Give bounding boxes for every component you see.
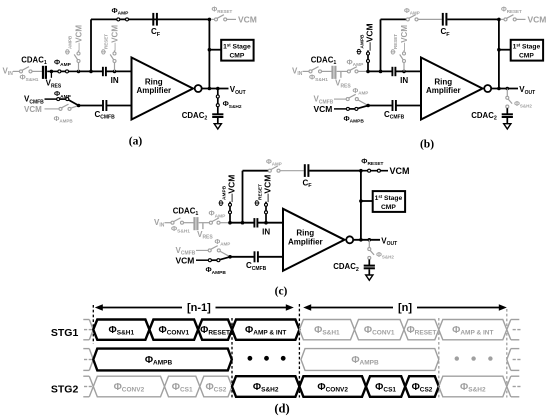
switch phi_AMP top open (b): [406, 15, 418, 21]
wire CMFB node to CCMFB (b): [368, 105, 392, 107]
signal row3 leading partial: [83, 376, 93, 397]
label phi_AMP main (a): [54, 57, 72, 68]
label IN (a): [111, 76, 119, 85]
node IN (a): [113, 70, 117, 74]
capacitor CDAC1 (a): [43, 66, 46, 79]
wire CDAC1 to phi_AMP switch (b): [337, 70, 348, 72]
capacitor CDAC2 (a): [212, 114, 223, 117]
net VIN label (b): [292, 67, 303, 78]
wire output (c): [353, 239, 380, 241]
wire phi_AMP switch to node A (b): [358, 70, 368, 72]
dots gray: [455, 356, 493, 360]
boundary dashed line n mid: [438, 318, 440, 398]
signal row2 leading partial: [83, 349, 93, 371]
label phi_RESET rotated (c): [253, 184, 264, 206]
wire output vertical (c): [360, 171, 362, 240]
svg-text:Ring: Ring: [296, 229, 314, 238]
label phi_AMP VCMFB (b): [353, 88, 369, 96]
caption (b): [420, 139, 434, 151]
wire IN cap to amplifier (a): [106, 70, 131, 72]
node VOUT junction 2 (c): [368, 238, 372, 242]
label VCM rotated 2 (b): [400, 25, 409, 51]
signal row3 trailing partial: [507, 376, 521, 397]
signal STG1 phi_AMP &a n-1: [232, 320, 299, 340]
net VIN label (c): [154, 218, 165, 229]
wire switch to CDAC1 (a): [32, 70, 42, 72]
label VCMFB (a): [24, 95, 44, 106]
label phi_S&H1 (a): [20, 73, 39, 84]
label VCMFB (c): [176, 246, 196, 257]
signal STG2 phi_CS2 n-1: [200, 376, 232, 397]
label phi_AMPB bottom (c): [206, 265, 227, 276]
signal row2 trailing partial: [507, 349, 521, 371]
svg-text:IN: IN: [262, 227, 270, 236]
label phi_S&H1 (c): [171, 224, 190, 235]
label phi_RESET top-right (c): [361, 157, 383, 168]
label phi_AMPB rotated (b): [355, 34, 366, 55]
label [n-1]: [187, 302, 211, 314]
caption (c): [275, 286, 288, 298]
inverter output bubble (a): [195, 85, 202, 92]
label CCMFB (b): [384, 110, 405, 121]
wire node A to IN cap (c): [230, 222, 254, 224]
label VCM bottom (b): [314, 104, 333, 114]
label phi_RESET top-right (a): [212, 7, 233, 15]
label CCMFB (c): [246, 261, 267, 272]
wire VCM to switch (b): [334, 108, 349, 110]
label STG2: [51, 384, 79, 396]
wire feedback vertical (a): [89, 19, 93, 73]
node CMFB junction (b): [366, 104, 370, 108]
signal STG1 phi_RESET n: [404, 320, 439, 340]
switch phi_RESET to VCM vertical (a): [110, 50, 116, 71]
label VOUT (c): [381, 237, 397, 248]
switch S&H1 open (b): [309, 67, 322, 73]
label phi_AMP VCMFB (c): [215, 239, 231, 247]
label IN (b): [400, 76, 408, 85]
node CMP branch (b): [497, 48, 501, 52]
wire CCMFB to amplifier (a): [107, 105, 132, 107]
wire node A to IN cap (a): [79, 70, 103, 72]
switch phi_RESET to VCM vertical (b): [400, 50, 406, 71]
label CF (a): [151, 27, 161, 38]
node CMP branch (a): [208, 48, 212, 52]
svg-text:CDAC1: CDAC1: [311, 55, 337, 66]
svg-text:VCM: VCM: [176, 255, 195, 265]
ground (a): [214, 118, 221, 129]
signal STG1 phi_RESET n-1: [198, 320, 232, 340]
label phi_AMP VCMFB (a): [54, 89, 72, 100]
arrow span n: [303, 304, 507, 310]
caption (a): [129, 136, 143, 148]
capacitor CCMFB (c): [255, 251, 258, 262]
signal STG2 phi_CS2 n: [405, 376, 439, 397]
capacitor CDAC1 (c): [195, 217, 198, 230]
node VRES (a): [50, 70, 54, 78]
signal phi_AMPB n: [301, 349, 439, 371]
svg-text:(a): (a): [129, 136, 143, 148]
svg-text:CMP: CMP: [519, 53, 534, 60]
label phi_AMPB bottom (a): [54, 116, 74, 124]
label phi_RESET rotated (b): [391, 34, 399, 55]
comparator 1st Stage CMP box (a): [221, 40, 253, 61]
node CMFB junction (a): [77, 104, 81, 108]
switch phi_AMPB to VCM vertical (c): [229, 202, 232, 223]
signal STG1 phi_AMP &a n: [439, 320, 507, 340]
switch phi_RESET top-right (a): [211, 15, 236, 21]
svg-text:(b): (b): [420, 139, 434, 151]
label phi_AMP top (b): [404, 8, 420, 16]
label VCM bottom (a): [24, 105, 42, 114]
svg-text:(d): (d): [274, 402, 289, 416]
switch phi_AMPB VCM bottom (c): [208, 257, 230, 262]
label VCM rotated 1 (b): [365, 23, 375, 50]
label CDAC2 (a): [182, 111, 208, 122]
svg-text:Amplifier: Amplifier: [426, 86, 461, 95]
op-amp Ring Amplifier (c): [283, 209, 345, 271]
label VCM rotated 1 (a): [74, 25, 83, 51]
label phi_S&H2 (b): [514, 101, 532, 109]
boundary dashed line phi_AMPINT start: [231, 318, 233, 398]
svg-text:CMP: CMP: [381, 204, 396, 211]
svg-text:STG1: STG1: [51, 327, 79, 339]
label CDAC2 (b): [471, 111, 497, 122]
wire top feedback mid gray (c): [280, 170, 304, 172]
label phi_AMP main (c): [209, 209, 227, 220]
label STG1: [51, 327, 79, 339]
wire VCM to switch (c): [196, 259, 211, 261]
signal STG2 phi_S&amp n: [439, 376, 507, 397]
capacitor CCMFB (b): [393, 100, 396, 111]
signal STG2 phi_CONV2 n-1: [93, 376, 164, 397]
switch phi_S&H2 (c): [368, 240, 374, 265]
wire phi_AMP switch to node A (c): [220, 222, 230, 224]
boundary dashed line n-1/n: [298, 304, 300, 398]
switch phi_AMP VCMFB (b): [346, 94, 368, 105]
switch phi_RESET top-right (b): [501, 15, 526, 21]
label phi_S&H1 (b): [309, 73, 328, 84]
label VCM top-right (b): [528, 15, 547, 25]
wire feedback vertical (c): [241, 171, 245, 225]
label [n]: [398, 302, 412, 314]
signal STG2 phi_CONV2 n: [299, 376, 366, 397]
capacitor CDAC2 (c): [364, 266, 375, 269]
svg-text:—VCM: —VCM: [110, 25, 119, 51]
wire output (b): [491, 88, 518, 90]
label VCM top-right (c): [390, 166, 410, 176]
label phi_RESET rotated (a): [101, 34, 109, 55]
inverter output bubble (b): [484, 85, 491, 92]
label CF (c): [303, 179, 313, 190]
wire top feedback mid gray (b): [418, 18, 442, 20]
dots black: [248, 356, 286, 361]
svg-text:Ring: Ring: [434, 77, 452, 86]
node top-right junction (c): [359, 169, 363, 173]
svg-text:(c): (c): [275, 286, 288, 298]
svg-text:CMP: CMP: [229, 53, 244, 60]
svg-text:VCM: VCM: [390, 166, 410, 176]
svg-text:CDAC1: CDAC1: [21, 55, 47, 66]
wire to CMP box (c): [361, 200, 373, 202]
wire CDAC1 to phi_AMP switch (c): [199, 222, 210, 224]
switch phi_AMP top closed (a): [117, 18, 129, 21]
switch phi_AMPB VCM bottom (a): [59, 104, 79, 110]
label CF (b): [441, 27, 451, 38]
switch phi_AMP main (b): [347, 67, 358, 73]
wire VCM to switch (a): [45, 108, 60, 110]
label phi_S&H2 (c): [376, 252, 394, 260]
wire switch to CDAC1 (b): [322, 70, 332, 72]
switch phi_AMPB to VCM vertical (b): [367, 50, 370, 71]
wire output vertical (b): [498, 19, 500, 88]
label VRES (b): [335, 79, 351, 90]
capacitor CF (a): [153, 13, 157, 26]
label phi_AMP top (c): [266, 159, 282, 167]
node VOUT junction 2 (a): [216, 87, 220, 91]
boundary dashed line left: [92, 305, 94, 344]
label VCM top-right (a): [238, 15, 257, 25]
wire switch to CDAC1 (c): [184, 222, 194, 224]
capacitor CDAC2 (b): [502, 114, 513, 117]
switch phi_AMP main (c): [209, 218, 220, 224]
switch phi_S&H2 (b): [506, 89, 512, 114]
svg-text:—VCM: —VCM: [365, 23, 375, 50]
wire top feedback (a): [91, 18, 209, 20]
boundary dashed line right: [506, 309, 508, 398]
label phi_RESET top-right (b): [501, 7, 522, 15]
svg-text:VCM: VCM: [238, 15, 257, 25]
node IN (c): [264, 221, 268, 225]
switch phi_AMP VCMFB (c): [208, 246, 230, 257]
signal STG1 phi_S&amp; n-1: [93, 320, 149, 340]
switch phi_S&H2 (a): [216, 89, 219, 114]
label IN (c): [262, 227, 270, 236]
signal row1 trailing partial: [507, 320, 521, 340]
switch phi_AMPB VCM bottom (b): [346, 106, 368, 111]
label CCMFB (a): [95, 110, 116, 121]
wire phi_AMP switch to node A (a): [69, 70, 79, 72]
wire top feedback left (c): [243, 170, 269, 172]
node A junction (c): [228, 221, 232, 225]
capacitor C_IN (a): [103, 67, 106, 76]
switch phi_AMP main (a): [58, 70, 69, 73]
comparator 1st Stage CMP box (b): [511, 40, 543, 61]
arrow span n-1: [95, 304, 294, 310]
node CMP branch (c): [359, 199, 363, 203]
wire feedback vertical (b): [379, 19, 383, 73]
ground (c): [366, 269, 373, 280]
label VRES (a): [46, 79, 62, 90]
label CDAC1 (a): [21, 55, 47, 66]
node VOUT junction 2 (b): [506, 87, 510, 91]
node VRES (b): [340, 71, 342, 77]
label VOUT (a): [230, 85, 246, 96]
svg-text:[n-1]: [n-1]: [187, 302, 211, 314]
wire VCMFB to switch (c): [196, 249, 208, 251]
ground (b): [504, 118, 511, 129]
signal STG2 phi_CS1 n: [366, 376, 405, 397]
signal row1 leading partial: [83, 320, 93, 340]
svg-text:VCM: VCM: [24, 105, 42, 114]
switch phi_AMPB to VCM vertical (a): [74, 50, 80, 71]
wire CMFB node to CCMFB (c): [230, 256, 254, 258]
wire VCMFB to switch (b): [334, 98, 346, 100]
label VCM rotated 2 (c): [263, 175, 273, 202]
wire top feedback right (b): [447, 18, 499, 20]
capacitor CF (b): [443, 13, 447, 26]
svg-text:—VCM: —VCM: [74, 25, 83, 51]
switch S&H1 open (a): [20, 67, 33, 73]
node VOUT junction 1 (c): [359, 238, 363, 242]
label phi_S&H2 (a): [223, 99, 242, 110]
node VOUT junction 1 (a): [208, 87, 212, 91]
label VOUT (b): [519, 85, 535, 96]
wire VIN to switch (a): [13, 70, 19, 72]
label VCM bottom (c): [176, 255, 195, 265]
caption (d): [274, 402, 289, 416]
wire IN cap to amplifier (b): [396, 70, 421, 72]
wire top feedback right (c): [309, 170, 361, 172]
wire output (a): [202, 88, 229, 90]
svg-text:—VCM: —VCM: [263, 175, 273, 202]
svg-text:Ring: Ring: [145, 77, 163, 86]
switch phi_RESET to VCM vertical (c): [265, 202, 268, 223]
wire to CMP box (b): [499, 49, 511, 51]
capacitor C_IN (c): [254, 218, 257, 227]
svg-text:IN: IN: [111, 76, 119, 85]
node top-right junction (b): [497, 18, 501, 22]
label phi_AMPB rotated (a): [65, 35, 73, 55]
label CDAC1 (c): [173, 207, 199, 218]
wire CDAC1 to phi_AMP switch (a): [47, 70, 58, 72]
label VCMFB (b): [314, 95, 334, 106]
node VOUT junction 1 (b): [497, 87, 501, 91]
svg-text:VCM: VCM: [314, 104, 333, 114]
wire VIN to switch (b): [303, 70, 309, 72]
inverter output bubble (c): [346, 236, 353, 243]
wire node A to IN cap (b): [368, 70, 392, 72]
node IN (b): [402, 70, 406, 74]
wire to CMP box (a): [209, 49, 221, 51]
switch phi_AMP VCMFB (a): [57, 98, 79, 106]
label CDAC1 (b): [311, 55, 337, 66]
label VCM rotated 2 (a): [110, 25, 119, 51]
signal STG1 phi_S&amp; n: [299, 320, 354, 340]
switch phi_AMP top open (c): [268, 166, 280, 172]
label VCM rotated 1 (c): [227, 175, 237, 202]
wire IN cap to amplifier (c): [258, 222, 283, 224]
svg-text:IN: IN: [400, 76, 408, 85]
node A junction (a): [77, 70, 81, 74]
signal STG2 phi_S&amp n-1: [232, 376, 299, 397]
svg-text:—VCM: —VCM: [227, 175, 237, 202]
svg-text:Amplifier: Amplifier: [288, 238, 323, 247]
label CDAC2 (c): [333, 262, 359, 273]
svg-text:[n]: [n]: [398, 302, 412, 314]
signal STG1 phi_CONV1 n: [355, 320, 405, 340]
signal phi_AMPB n-1: [93, 349, 232, 371]
capacitor CF (c): [305, 164, 309, 177]
wire CMFB node to CCMFB (a): [79, 105, 103, 107]
label phi_AMP main (b): [347, 57, 365, 68]
wire VCMFB to switch (a): [45, 98, 57, 100]
label phi_AMPB rotated (c): [217, 185, 228, 206]
wire CCMFB to amplifier (b): [396, 105, 421, 107]
switch phi_RESET top-right (c): [361, 169, 388, 172]
node top-right junction (a): [208, 18, 212, 22]
node A junction (b): [366, 70, 370, 74]
label phi_AMP top (a): [112, 6, 130, 17]
svg-text:STG2: STG2: [51, 384, 79, 396]
signal STG2 phi_CS1 n-1: [165, 376, 200, 397]
switch S&H1 open (c): [171, 218, 184, 224]
capacitor CCMFB (a): [103, 100, 106, 111]
wire top feedback left (b): [381, 18, 407, 20]
capacitor C_IN (b): [392, 67, 395, 76]
svg-text:VCM: VCM: [528, 15, 547, 25]
svg-text:—VCM: —VCM: [400, 25, 409, 51]
node VRES (c): [202, 223, 204, 229]
capacitor CDAC1 (b): [333, 66, 336, 79]
comparator 1st Stage CMP box (c): [373, 191, 405, 212]
node CMFB junction (c): [228, 255, 232, 259]
op-amp Ring Amplifier (a): [132, 58, 194, 120]
wire CCMFB to amplifier (c): [258, 256, 283, 258]
wire output vertical (a): [208, 19, 210, 88]
label VRES (c): [197, 230, 213, 241]
net VIN label (a): [3, 67, 14, 78]
label phi_AMPB bottom (b): [344, 114, 365, 125]
signal STG1 phi_CONV1 n-1: [149, 320, 198, 340]
op-amp Ring Amplifier (b): [421, 58, 483, 120]
svg-text:Amplifier: Amplifier: [136, 86, 171, 95]
wire VIN to switch (c): [165, 222, 171, 224]
